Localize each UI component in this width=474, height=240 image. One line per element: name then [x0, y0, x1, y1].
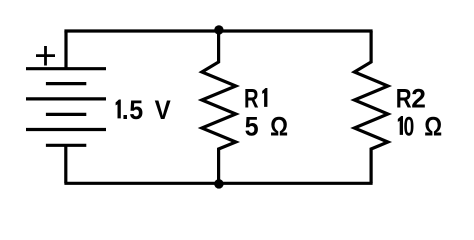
svg-text:5: 5	[129, 95, 143, 125]
battery plus polarity mark	[36, 46, 55, 66]
svg-text:R: R	[396, 83, 412, 113]
resistor R2 value 10 ohm	[398, 111, 442, 141]
wire top rail	[64, 29, 372, 32]
battery B1 plates	[26, 69, 106, 146]
svg-text:5: 5	[245, 111, 259, 141]
resistor R1 label	[244, 83, 267, 113]
wire battery top lead	[64, 31, 67, 69]
svg-text:0: 0	[404, 111, 415, 141]
resistor R1 value 5 ohm	[245, 111, 288, 141]
svg-text:.: .	[122, 95, 129, 125]
svg-text:V: V	[155, 95, 171, 125]
resistor R1	[202, 31, 236, 183]
node junction bottom	[214, 179, 224, 189]
wire bottom rail	[64, 182, 372, 185]
node junction top	[214, 25, 223, 34]
wire battery bottom lead	[64, 145, 67, 183]
svg-text:2: 2	[411, 83, 426, 113]
svg-text:Ω: Ω	[270, 111, 288, 141]
resistor R2	[354, 31, 388, 183]
resistor R2 label	[396, 83, 426, 113]
svg-text:R: R	[244, 83, 259, 113]
svg-text:Ω: Ω	[424, 111, 442, 141]
battery value label 1.5 V	[116, 95, 171, 125]
